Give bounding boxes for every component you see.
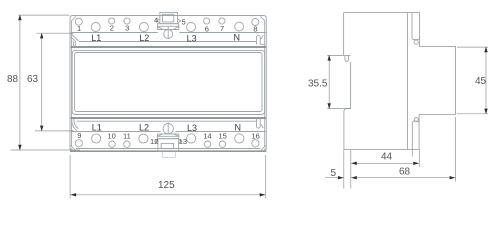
svg-text:13: 13 bbox=[179, 137, 187, 146]
svg-text:16: 16 bbox=[252, 131, 260, 140]
top sealing clamp inner rect bbox=[162, 14, 173, 22]
bottom sealing clamp band with cross bbox=[157, 134, 178, 139]
svg-text:L2: L2 bbox=[139, 33, 149, 43]
arrow 125 left bbox=[70, 193, 76, 196]
svg-text:N: N bbox=[234, 33, 241, 43]
dim 5 extension left bbox=[343, 150, 345, 189]
svg-text:125: 125 bbox=[158, 180, 175, 191]
arrow 44 right bbox=[413, 162, 419, 165]
svg-text:L1: L1 bbox=[91, 33, 101, 43]
svg-text:4: 4 bbox=[154, 16, 158, 25]
dim 44 extension inner bbox=[411, 149, 413, 156]
terminal circle L1 top bbox=[91, 23, 100, 32]
top-right edge tab detail bbox=[257, 35, 265, 44]
terminal circle 14 bbox=[204, 141, 210, 147]
display window outer bbox=[72, 50, 264, 114]
dim 45 extension top bbox=[457, 46, 488, 48]
dim 35.5 line bbox=[328, 55, 330, 108]
terminal circle N bottom bbox=[235, 134, 244, 143]
dim 45 line bbox=[485, 47, 487, 114]
top sealing screw slot bbox=[167, 26, 169, 38]
dim 88 extension bottom bbox=[11, 149, 81, 151]
svg-text:2: 2 bbox=[110, 24, 114, 33]
top sealing clamp outer rect bbox=[160, 12, 178, 23]
side view DIN slot hook bbox=[345, 55, 349, 61]
terminal circle 10 bbox=[109, 141, 115, 147]
terminal circle 9 bbox=[75, 140, 82, 147]
bottom sealing clamp left wing bbox=[155, 139, 158, 143]
terminal circle 15 bbox=[219, 141, 225, 147]
arrow 44 left bbox=[351, 162, 357, 165]
svg-text:35.5: 35.5 bbox=[308, 79, 328, 90]
terminal circle 3 bbox=[124, 18, 130, 24]
dim 68 extension right bbox=[455, 117, 457, 182]
arrow 35.5 top bbox=[328, 55, 331, 61]
top terminal strip lower line bbox=[71, 32, 266, 34]
terminal circle L2 bottom bbox=[139, 134, 148, 143]
front view bottom edge thick bbox=[70, 150, 266, 152]
dim 35.5 extension top bbox=[327, 54, 343, 56]
dim 63 extension top bbox=[37, 32, 74, 34]
top sealing clamp band with cross bbox=[157, 24, 178, 30]
arrow 45 top bbox=[484, 47, 487, 53]
arrow 88 bottom bbox=[18, 145, 21, 151]
svg-text:N: N bbox=[235, 123, 242, 133]
bottom strip floor line bbox=[76, 148, 261, 150]
front view body outline bbox=[70, 16, 266, 152]
terminal circle 2 bbox=[109, 18, 115, 24]
arrow 35.5 bottom bbox=[328, 103, 331, 109]
bottom-left edge chamfer detail bbox=[72, 119, 79, 131]
svg-text:11: 11 bbox=[123, 131, 131, 140]
bottom sealing clamp right wing bbox=[179, 139, 182, 143]
top sealing clamp left wing bbox=[157, 19, 160, 23]
dim 44 extension right bbox=[418, 149, 420, 167]
front view inner left edge line bbox=[72, 16, 76, 147]
bottom dark separator line bbox=[71, 117, 266, 119]
dim 44 extension left bbox=[350, 150, 352, 189]
arrow 68 left bbox=[351, 176, 357, 179]
svg-text:5: 5 bbox=[331, 168, 337, 179]
bottom-left corner chamfer bbox=[71, 145, 77, 151]
svg-text:45: 45 bbox=[475, 76, 487, 87]
top-left edge chamfer detail bbox=[71, 34, 79, 48]
bottom sealing clamp inner rect bbox=[161, 143, 173, 148]
terminal circle 6 bbox=[204, 18, 210, 24]
svg-text:7: 7 bbox=[220, 24, 224, 33]
side view outline bbox=[344, 13, 456, 150]
dim 125 extension left bbox=[69, 155, 71, 199]
svg-text:3: 3 bbox=[125, 24, 129, 33]
svg-text:14: 14 bbox=[203, 131, 211, 140]
dim 63 extension bottom bbox=[35, 130, 74, 132]
svg-text:9: 9 bbox=[77, 131, 81, 140]
bottom terminal strip upper line bbox=[71, 131, 266, 133]
dim 88 line bbox=[19, 15, 21, 150]
arrow 63 top bbox=[40, 33, 43, 39]
arrow 68 right bbox=[450, 176, 456, 179]
terminal circle 7 bbox=[219, 18, 225, 24]
terminal circle L1 bottom bbox=[92, 134, 101, 143]
arrow 63 bottom bbox=[40, 126, 43, 132]
arrow 125 right bbox=[260, 193, 266, 196]
bottom sealing screw circle bbox=[163, 123, 173, 133]
svg-text:L3: L3 bbox=[187, 33, 197, 43]
svg-text:L2: L2 bbox=[139, 122, 149, 132]
svg-text:5: 5 bbox=[182, 18, 186, 27]
display window inner bbox=[75, 53, 262, 112]
arrow 45 bottom bbox=[484, 109, 487, 115]
top dark separator line bbox=[71, 46, 266, 48]
svg-text:68: 68 bbox=[399, 167, 411, 178]
bottom-right edge tab detail bbox=[257, 119, 264, 128]
svg-text:1: 1 bbox=[77, 24, 81, 33]
svg-text:63: 63 bbox=[27, 74, 39, 85]
terminal circle L3 bottom bbox=[187, 134, 196, 143]
terminal circle 8 bbox=[252, 19, 259, 26]
svg-text:L3: L3 bbox=[187, 123, 197, 133]
bottom sealing clamp outer rect bbox=[158, 139, 179, 151]
dim 63 line bbox=[41, 33, 43, 131]
terminal circle L2 top bbox=[139, 23, 148, 32]
dim 44 line bbox=[351, 162, 420, 164]
terminal circle 11 bbox=[124, 141, 130, 147]
bottom sealing screw slot bbox=[167, 123, 169, 135]
terminal circle N top bbox=[235, 22, 244, 31]
svg-text:44: 44 bbox=[381, 152, 393, 163]
side view top screw channel bbox=[412, 13, 420, 40]
svg-text:10: 10 bbox=[108, 131, 116, 140]
side view bottom screw channel bbox=[412, 121, 419, 149]
svg-text:8: 8 bbox=[253, 24, 257, 33]
bottom-right corner chamfer bbox=[260, 145, 266, 151]
dim 35.5 extension bottom bbox=[327, 108, 350, 110]
svg-text:12: 12 bbox=[150, 137, 158, 146]
arrow 88 top bbox=[18, 15, 21, 21]
dim 5 line bbox=[325, 177, 344, 179]
svg-text:88: 88 bbox=[7, 74, 19, 85]
top sealing screw circle bbox=[164, 30, 173, 39]
bottom clamp protrusion below body bbox=[162, 152, 175, 158]
terminal circle 1 bbox=[75, 18, 82, 25]
terminal circle 16 bbox=[252, 140, 259, 147]
side view internal vertical line bbox=[407, 13, 409, 150]
svg-text:L1: L1 bbox=[92, 122, 102, 132]
front view inner right edge line bbox=[260, 16, 264, 147]
top label band lower line bbox=[79, 41, 256, 43]
top sealing clamp right wing bbox=[178, 19, 181, 23]
dim 125 extension right bbox=[265, 155, 267, 199]
dim 88 extension top bbox=[19, 14, 70, 16]
svg-text:15: 15 bbox=[219, 131, 227, 140]
arrow 5 pointing right bbox=[338, 176, 344, 179]
terminal circle L3 top bbox=[187, 23, 196, 32]
bottom label band upper line bbox=[77, 120, 257, 122]
dim 68 line bbox=[351, 177, 456, 179]
svg-text:6: 6 bbox=[205, 24, 209, 33]
dim 45 extension bottom bbox=[457, 113, 488, 115]
dim 125 line bbox=[70, 194, 266, 196]
side view top screw circle bbox=[414, 40, 418, 44]
side view bottom screw circle bbox=[414, 118, 418, 122]
